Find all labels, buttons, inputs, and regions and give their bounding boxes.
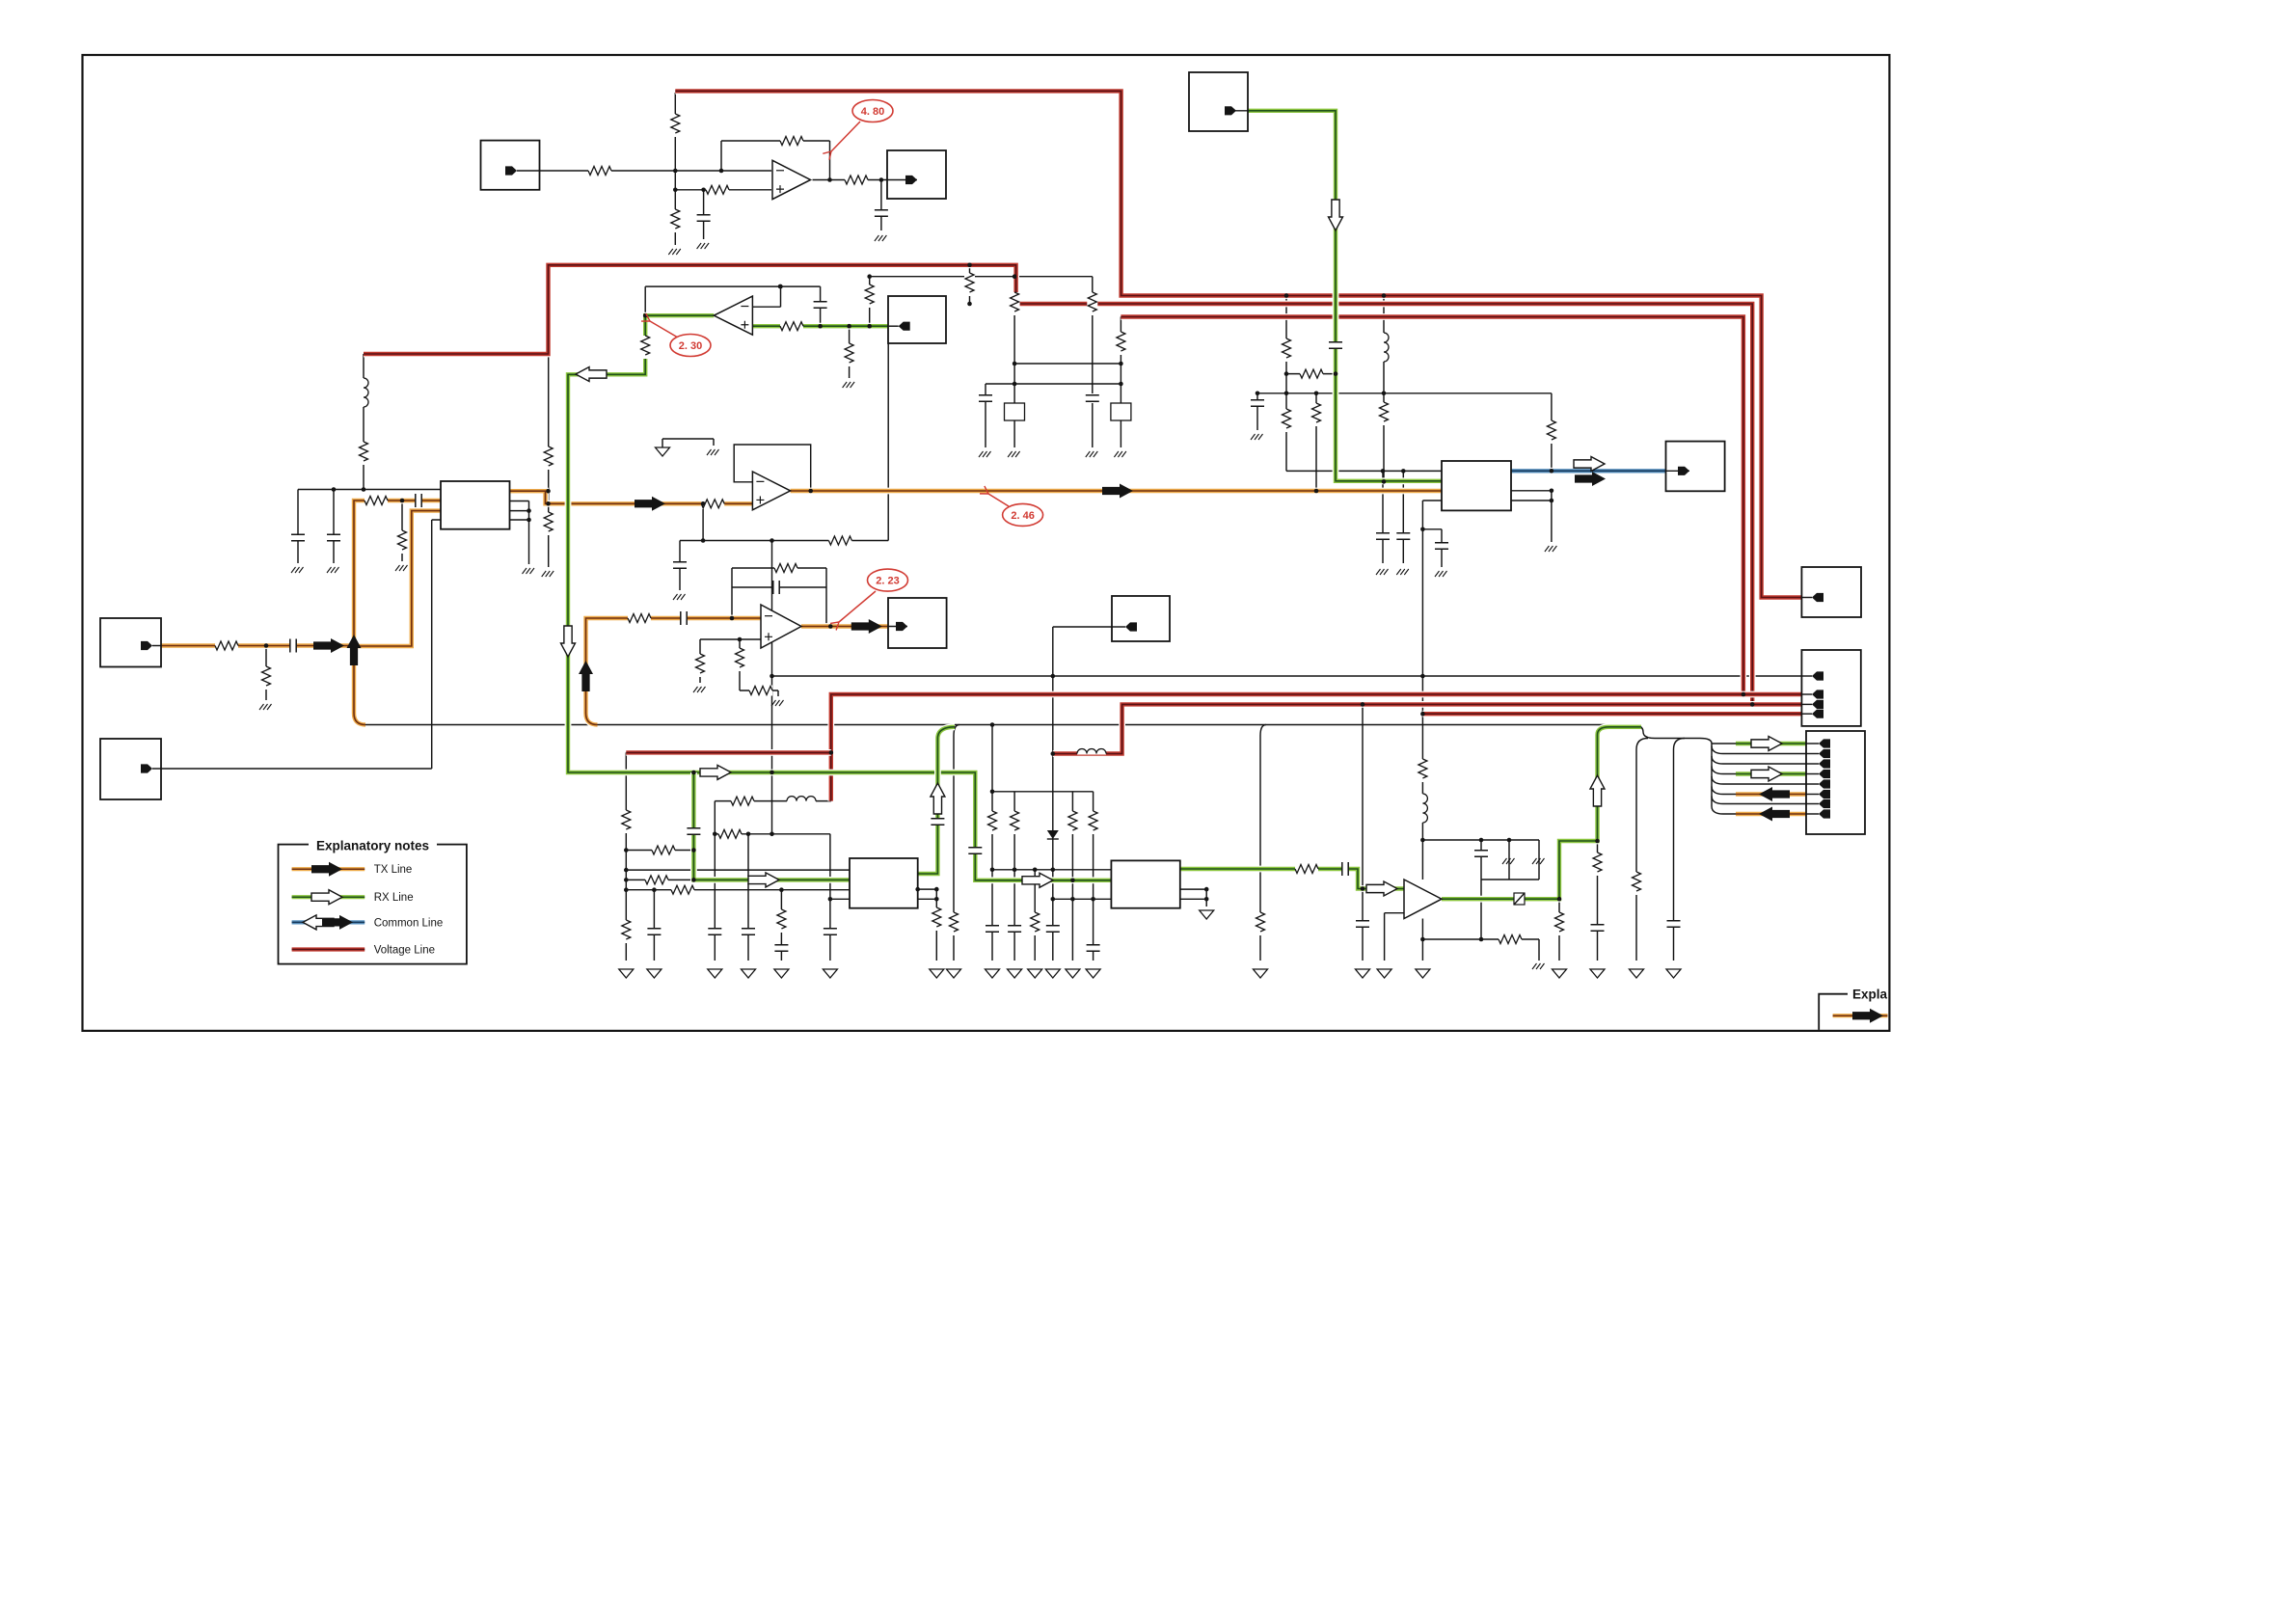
svg-text:RX Line: RX Line (374, 892, 414, 904)
svg-text:2. 30: 2. 30 (679, 340, 702, 352)
svg-text:2. 23: 2. 23 (876, 576, 899, 587)
svg-text:Expla: Expla (1852, 988, 1888, 1002)
svg-text:4. 80: 4. 80 (861, 106, 884, 118)
svg-text:Explanatory notes: Explanatory notes (316, 839, 429, 853)
svg-text:TX Line: TX Line (374, 864, 413, 876)
svg-text:Voltage Line: Voltage Line (374, 945, 435, 957)
svg-text:2. 46: 2. 46 (1011, 510, 1034, 522)
svg-text:Common Line: Common Line (374, 917, 444, 929)
